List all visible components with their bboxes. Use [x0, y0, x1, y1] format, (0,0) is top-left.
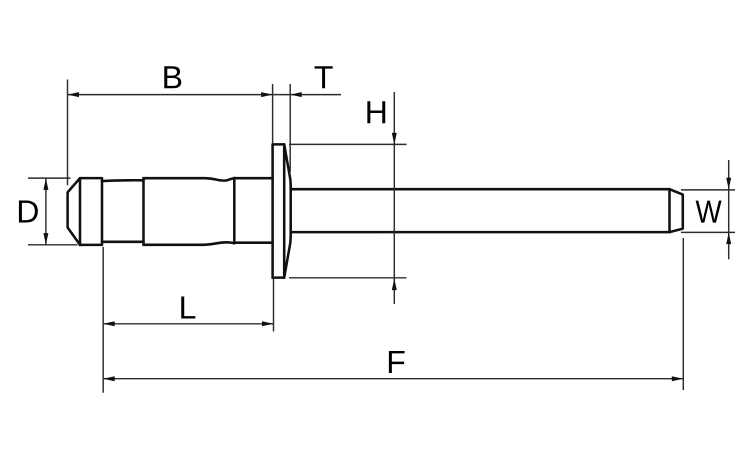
arrowhead B right / T left	[261, 92, 273, 97]
extension line L left shared with F	[102, 247, 104, 393]
rivet body right section bottom edge	[234, 241, 272, 244]
mandrel top edge	[291, 188, 670, 191]
extension line L right	[273, 279, 275, 332]
arrowhead F left	[103, 376, 115, 381]
dimension line T across flange	[273, 94, 291, 96]
rivet body section A top edge	[102, 179, 144, 182]
flange bottom edge	[273, 276, 285, 279]
rivet body nose	[68, 178, 80, 245]
flange left face	[271, 144, 274, 277]
arrowhead W top	[726, 178, 731, 190]
label W	[696, 201, 722, 223]
mandrel tip joint	[668, 189, 671, 232]
rivet body middle bottom edge with wave	[144, 242, 235, 245]
flange dome arc	[284, 144, 291, 277]
arrowhead B left	[68, 92, 80, 97]
arrowhead T right	[290, 92, 302, 97]
extension line D top	[28, 177, 71, 179]
dimension line F	[103, 378, 683, 380]
rivet body section A bottom edge	[102, 241, 144, 244]
rivet body collar	[80, 178, 102, 245]
arrowhead D bottom	[43, 233, 48, 245]
dimension line H vertical	[393, 92, 395, 304]
flange rim edge	[283, 144, 286, 277]
arrowhead L right	[262, 321, 274, 326]
mandrel tip outline	[670, 189, 683, 232]
extension line D bottom	[28, 244, 78, 246]
arrowhead W bottom	[726, 233, 731, 245]
extension line B left	[67, 80, 69, 186]
arrowhead F right	[672, 376, 684, 381]
rivet body middle top edge with wave	[144, 178, 235, 180]
extension line flange left	[272, 84, 274, 143]
extension line W bottom	[681, 231, 735, 233]
rivet body step joint	[142, 178, 145, 245]
dimension line B	[68, 94, 273, 96]
label H	[367, 101, 385, 123]
label D	[19, 200, 38, 222]
arrowhead L left	[103, 321, 115, 326]
flange top edge	[273, 143, 285, 146]
mandrel bottom edge	[291, 231, 670, 234]
label L	[181, 296, 195, 318]
label F	[389, 351, 405, 373]
extension line H bottom	[289, 277, 407, 279]
extension line H top	[289, 143, 407, 145]
extension line flange right	[289, 84, 291, 172]
extension line W top	[681, 189, 735, 191]
label T	[315, 66, 333, 88]
arrowhead H bottom	[392, 279, 397, 291]
rivet body right section top edge	[234, 177, 272, 180]
dimension line D vertical	[45, 178, 47, 244]
label B	[164, 66, 181, 88]
dimension line T tail	[290, 94, 341, 96]
arrowhead H top	[392, 133, 397, 145]
dimension line L	[103, 323, 273, 325]
extension line F right	[682, 238, 684, 390]
arrowhead D top	[43, 178, 48, 190]
rivet body joint line	[233, 178, 236, 244]
dimension line W vertical	[728, 160, 730, 259]
